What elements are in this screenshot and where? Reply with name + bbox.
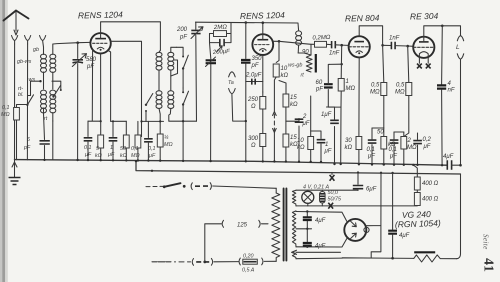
- tube V2 RENS 1204: [252, 34, 273, 55]
- wire: HT centre tap rail: [296, 228, 312, 230]
- capacitor 6pF: [40, 114, 50, 160]
- svg-text:0,1: 0,1: [148, 146, 156, 152]
- capacitor 0,1uF (2): [390, 132, 404, 165]
- capacitor 4uF (HT lower): [303, 229, 312, 247]
- junction: [341, 63, 343, 65]
- svg-text:6: 6: [27, 137, 30, 143]
- resistor 0,1 MOhm (decoupling): [135, 121, 141, 160]
- mains lead lower (dash-dot): [152, 261, 191, 263]
- junction dots on ground bus: [43, 159, 443, 167]
- resistor 300 Ohm: [260, 134, 266, 162]
- svg-text:pF: pF: [315, 87, 323, 93]
- svg-text:MΩ: MΩ: [395, 90, 405, 96]
- svg-text:10: 10: [297, 138, 304, 144]
- wire: primary top: [275, 188, 277, 193]
- svg-text:2MΩ: 2MΩ: [213, 25, 228, 31]
- label 2 MOhm (divider): [407, 138, 417, 151]
- label 6 pF: [23, 137, 31, 151]
- wire: screen lead down: [108, 50, 111, 121]
- svg-text:0,1: 0,1: [131, 146, 139, 152]
- wire: V1 top lead to first IF coil: [101, 22, 161, 50]
- capacitor 350pF: [241, 23, 251, 161]
- label 0,1 MOhm (d): [131, 146, 140, 159]
- svg-text:rt: rt: [44, 116, 48, 122]
- svg-text:μF: μF: [84, 152, 92, 158]
- label 1 uF (AF): [324, 142, 332, 155]
- label 0,1 uF (b): [148, 146, 156, 159]
- svg-text:0,1: 0,1: [2, 105, 10, 111]
- svg-text:0,5 A: 0,5 A: [242, 268, 255, 274]
- wire: V2 cathode column: [262, 55, 264, 92]
- svg-text:0,2MΩ: 0,2MΩ: [312, 35, 331, 42]
- svg-text:50: 50: [377, 130, 384, 136]
- mains switch S5: [146, 183, 186, 188]
- IF transformer coil L3a: [156, 50, 162, 90]
- antenna: [4, 11, 29, 36]
- junction: [406, 45, 409, 48]
- wire: V2 grid to top bus: [262, 23, 264, 35]
- wire: jack2 down to ground bus: [26, 44, 28, 160]
- IF transformer coil L3b: [156, 91, 162, 134]
- wire: 1M bottom to bus: [340, 107, 342, 164]
- label 580 pF: [86, 57, 97, 70]
- oscillator coil L5: [296, 31, 302, 53]
- junction dots on heater bus: [151, 170, 394, 174]
- svg-text:kΩ: kΩ: [345, 145, 353, 151]
- heater bus (lower): [136, 161, 461, 174]
- svg-text:2: 2: [407, 138, 412, 144]
- label 0,2 uF: [423, 137, 432, 150]
- junction: [340, 44, 343, 47]
- svg-text:pF: pF: [86, 64, 94, 70]
- capacitor 1uF (V3 cathode): [327, 107, 339, 164]
- capacitor 1uF (AF): [311, 131, 326, 162]
- capacitor 1uF: [109, 121, 118, 160]
- svg-text:350: 350: [252, 56, 263, 62]
- svg-text:kΩ: kΩ: [290, 102, 298, 108]
- label 0,5 MOhm (2): [395, 83, 405, 96]
- label 0,1 uF (a): [84, 145, 92, 158]
- antenna coil L2 secondary (lower): [50, 90, 56, 121]
- resistor 0,2 MOhm: [315, 41, 331, 47]
- svg-text:15: 15: [290, 95, 297, 101]
- wire: HT+ filter line: [392, 173, 394, 258]
- transformer HT secondary (middle): [292, 211, 296, 247]
- wire: 1M line: [340, 45, 343, 78]
- svg-text:1: 1: [346, 79, 349, 85]
- mains plug connector (lower): [192, 258, 239, 265]
- dropper resistor (barretter): [414, 252, 457, 262]
- wire: ws tap: [31, 80, 41, 82]
- label 2 uF: [302, 114, 310, 127]
- svg-text:4 V, 0,21 A: 4 V, 0,21 A: [303, 185, 329, 191]
- svg-text:μF: μF: [423, 144, 431, 150]
- svg-text:bl.: bl.: [18, 92, 24, 98]
- svg-text:REN 804: REN 804: [345, 13, 380, 24]
- antenna terminal jack 3: [40, 36, 46, 48]
- capacitor 2uF: [286, 119, 303, 162]
- capacitor 4uF (HT upper): [303, 212, 312, 229]
- svg-text:400 Ω: 400 Ω: [422, 181, 439, 187]
- label 4 nF: [448, 81, 455, 94]
- wire: grid return lower: [330, 63, 342, 65]
- svg-text:μF: μF: [302, 121, 310, 127]
- svg-text:RE 304: RE 304: [410, 11, 439, 22]
- antenna coil L1 primary (upper): [41, 47, 47, 89]
- band switch S2: [145, 94, 153, 122]
- junction dots HT rails: [306, 210, 308, 248]
- svg-text:gb: gb: [33, 47, 39, 53]
- tube V4 RE 304: [413, 37, 434, 58]
- svg-text:pF: pF: [23, 145, 31, 151]
- capacitor 0,1uF (1): [368, 128, 384, 164]
- svg-text:200: 200: [176, 27, 188, 33]
- svg-text:0,5: 0,5: [396, 83, 405, 89]
- transformer heater secondary (top): [292, 190, 296, 206]
- svg-text:0,1: 0,1: [367, 147, 375, 153]
- svg-text:4μF: 4μF: [315, 244, 326, 250]
- potentiometer 90 (feedback): [298, 44, 316, 72]
- transformer core: [284, 189, 287, 261]
- svg-text:RENS 1204: RENS 1204: [240, 10, 285, 21]
- svg-text:L: L: [456, 44, 460, 51]
- transformer rectifier filament secondary (bottom): [292, 251, 296, 259]
- rheostat 50 Ohm: [320, 190, 326, 206]
- wire: V1 cathode down: [100, 54, 102, 122]
- svg-text:nF: nF: [448, 88, 455, 94]
- svg-text:41: 41: [481, 258, 496, 272]
- resistor 1 MOhm: [328, 79, 344, 108]
- svg-text:300: 300: [248, 136, 259, 142]
- junction: [459, 164, 462, 167]
- label 50 Ohm: [328, 190, 342, 203]
- svg-text:6μF: 6μF: [366, 187, 377, 193]
- svg-text:580: 580: [86, 57, 97, 63]
- svg-text:MΩ: MΩ: [164, 142, 173, 148]
- svg-text:60: 60: [316, 80, 323, 86]
- wire: TA to cathode node: [232, 94, 246, 121]
- wire: grid lead coil to tube V1: [53, 42, 90, 44]
- wire: V2 anode line to 0,2M: [279, 41, 315, 44]
- svg-text:4μF: 4μF: [315, 218, 326, 224]
- heater X mark (upper, from heater bus): [330, 172, 335, 180]
- svg-text:MΩ: MΩ: [131, 153, 140, 159]
- wire: link pair 3: [142, 120, 164, 122]
- svg-text:50: 50: [120, 146, 126, 152]
- capacitor 4uF (bus series): [447, 160, 460, 170]
- svg-text:0,5: 0,5: [371, 83, 380, 89]
- wire: jack1 down to ground bus: [14, 44, 16, 160]
- label 350 pF: [251, 56, 263, 69]
- resistor 10 kOhm (AF): [308, 96, 314, 162]
- label 15 kOhm (l): [290, 135, 298, 148]
- label 15 kOhm (u): [290, 95, 298, 108]
- variable capacitor 580pF tuning: [72, 43, 86, 160]
- svg-text:2,0μF: 2,0μF: [245, 73, 262, 79]
- label 200 pF: [176, 27, 188, 41]
- svg-text:Ta: Ta: [228, 80, 234, 86]
- mains plug connector (upper): [191, 183, 276, 190]
- capacitor 2,0uF cathode: [246, 79, 263, 85]
- resistor 1 MOhm (IF): [157, 134, 163, 161]
- svg-text:0,20: 0,20: [243, 254, 254, 260]
- label 10 kOhm: [281, 66, 289, 79]
- svg-text:RENS 1204: RENS 1204: [78, 9, 123, 20]
- tube V3 REN 804: [349, 36, 370, 57]
- svg-text:Ω: Ω: [251, 143, 256, 149]
- svg-text:1: 1: [110, 145, 113, 151]
- junction: [381, 44, 384, 47]
- svg-text:μF: μF: [324, 149, 332, 155]
- svg-text:0,1: 0,1: [84, 145, 92, 151]
- svg-text:400 Ω: 400 Ω: [422, 197, 439, 203]
- label M kOhm: [164, 135, 173, 148]
- svg-text:1: 1: [325, 142, 328, 148]
- wire: L2 lower bottom to bus: [52, 121, 54, 160]
- arrow on filament lead: [292, 250, 297, 254]
- svg-text:30: 30: [345, 138, 352, 144]
- capacitor 0,1uF (b): [144, 121, 153, 160]
- capacitor 4nF: [437, 85, 446, 88]
- IF transformer coil L4b: [168, 91, 197, 122]
- ground: [9, 160, 21, 185]
- junction: [391, 257, 394, 260]
- resistor 250 Ohm: [260, 92, 266, 134]
- dial lamp: [302, 190, 314, 206]
- resistor 15 kOhm (lower): [283, 134, 289, 162]
- grid bus wire (top): [196, 22, 299, 30]
- resistor 2 MOhm grid leak: [210, 31, 232, 37]
- svg-text:MΩ: MΩ: [407, 145, 417, 151]
- svg-text:kΩ: kΩ: [281, 73, 289, 79]
- svg-text:4μF: 4μF: [443, 154, 454, 160]
- wire: heater circuit rails: [296, 190, 417, 206]
- resistor 400 Ohm (upper): [413, 165, 420, 190]
- svg-text:0,1: 0,1: [389, 147, 397, 153]
- loudspeaker terminal upper: [457, 36, 463, 41]
- resistor 0,1 MOhm (antenna): [14, 105, 28, 160]
- resistor 30 kOhm: [356, 57, 362, 164]
- label 50 kOhm (divider): [377, 130, 396, 149]
- capacitor 1nF coupling: [332, 41, 349, 48]
- svg-text:MΩ: MΩ: [370, 90, 380, 96]
- svg-text:MΩ: MΩ: [1, 112, 10, 118]
- resistor 0,5 MOhm (V3 plate): [381, 45, 387, 136]
- rectifier tube VG240: [344, 219, 369, 241]
- svg-text:rt: rt: [301, 73, 305, 79]
- svg-text:200μF: 200μF: [212, 49, 231, 56]
- trimmer capacitor (wave trap): [206, 43, 217, 161]
- svg-text:Ω: Ω: [251, 104, 256, 110]
- svg-text:1nF: 1nF: [329, 51, 340, 57]
- svg-text:50/75: 50/75: [328, 197, 342, 203]
- resistor 0,5 MOhm (V4 grid): [404, 46, 412, 136]
- capacitor 60pF: [324, 64, 333, 87]
- junction: [245, 21, 248, 24]
- resistor 5 kOhm: [98, 121, 104, 161]
- label 5 kOhm: [95, 146, 102, 159]
- wire: V4 anode feed down: [441, 26, 444, 166]
- variable capacitor 200pF padder: [191, 22, 203, 121]
- svg-text:250: 250: [247, 97, 259, 103]
- antenna terminal jack 1: [12, 36, 18, 45]
- wire: osc coil tap link: [171, 60, 178, 76]
- svg-text:1nF: 1nF: [389, 36, 400, 42]
- label 60 pF: [315, 80, 323, 93]
- resistor 50 kOhm: [123, 121, 129, 160]
- tube V1 RENS 1204: [90, 33, 110, 53]
- label 300 Ohm: [248, 136, 259, 149]
- junction: [441, 25, 444, 28]
- svg-text:kΩ: kΩ: [120, 153, 127, 159]
- transformer primary winding: [272, 193, 280, 261]
- wire: V1 anode right then down: [111, 41, 142, 136]
- svg-text:2: 2: [302, 114, 307, 120]
- wire: V3 anode top loop: [359, 26, 382, 46]
- capacitor 6uF: [353, 173, 363, 191]
- junction: [245, 120, 247, 122]
- heater X marks V4: [417, 58, 431, 69]
- capacitor 200uF grid: [210, 23, 232, 47]
- voltage tap 125: [205, 220, 268, 262]
- svg-text:μF: μF: [389, 154, 397, 160]
- svg-text:pF: pF: [251, 63, 259, 69]
- wire: HT feed from bus to rectifier: [367, 173, 382, 258]
- label 0,1 uF (1): [367, 147, 376, 160]
- label 10 kOhm (AF): [297, 138, 305, 151]
- label 1 MOhm: [346, 79, 356, 92]
- wire: rectifier filament bottom leads: [296, 252, 342, 258]
- pickup terminal TA upper: [229, 72, 236, 77]
- svg-text:μF: μF: [367, 154, 375, 160]
- capacitor 4uF (filter): [388, 231, 397, 234]
- capacitor 0,2uF: [413, 133, 422, 165]
- svg-text:MΩ: MΩ: [346, 86, 356, 92]
- label rt-bl: [18, 86, 24, 98]
- capacitor 1nF to V4: [383, 42, 414, 49]
- svg-text:1μF: 1μF: [321, 112, 332, 118]
- svg-text:125: 125: [237, 223, 248, 229]
- resistor 10 kOhm: [273, 64, 279, 111]
- band switch S1 (antenna): [52, 81, 62, 98]
- wire: top to speaker terminal: [442, 26, 460, 36]
- svg-text:ws-gb: ws-gb: [288, 63, 302, 69]
- svg-text:¼: ¼: [164, 135, 169, 141]
- resistor 2 MOhm (divider): [401, 132, 407, 165]
- resistor 400 Ohm (lower): [414, 190, 420, 206]
- wire: rectifier filament upper lead: [296, 212, 347, 223]
- wire: link pair 2: [111, 120, 127, 122]
- decoupling cluster: capacitor 0,1uF: [84, 121, 93, 160]
- svg-text:ws: ws: [29, 77, 36, 83]
- label 250 Ohm: [247, 97, 259, 110]
- band switch S4: [182, 88, 189, 161]
- label 0,5 MOhm (1): [370, 83, 380, 96]
- resistor 15 kOhm (upper): [279, 81, 289, 135]
- svg-text:kΩ: kΩ: [297, 145, 305, 151]
- band switch S0 (antenna earth): [26, 95, 33, 106]
- label 0,1 uF (2): [389, 147, 398, 160]
- bottom HT rail: [342, 257, 414, 260]
- wire: right return vertical: [457, 174, 461, 259]
- junction: [278, 40, 281, 43]
- junction: [76, 41, 79, 44]
- wire: rectifier filament lower lead: [296, 238, 347, 247]
- label 30 kOhm: [345, 138, 353, 151]
- svg-text:50,0: 50,0: [328, 190, 339, 196]
- pickup terminal TA lower: [229, 89, 236, 94]
- svg-text:4μF: 4μF: [399, 233, 410, 239]
- wire: V4 anode top loop: [424, 26, 443, 37]
- wire: rt-bl tap: [28, 81, 31, 95]
- wire: link pair 1: [88, 120, 101, 122]
- resistor 50 kOhm (divider): [381, 137, 387, 165]
- svg-text:kΩ: kΩ: [95, 153, 102, 159]
- ground bus (upper): [15, 160, 447, 166]
- wire: V1 left electrode down: [91, 50, 93, 122]
- svg-text:pF: pF: [179, 35, 187, 41]
- svg-text:10: 10: [281, 66, 288, 72]
- loudspeaker terminal lower: [457, 54, 463, 165]
- svg-text:90: 90: [302, 50, 309, 56]
- svg-text:μF: μF: [148, 153, 156, 159]
- svg-text:0,2: 0,2: [423, 137, 432, 143]
- fuse 0,2A: [239, 258, 276, 265]
- label 1 uF (a): [107, 145, 115, 158]
- label 50 kOhm: [120, 146, 127, 159]
- svg-text:gb-ws: gb-ws: [17, 59, 32, 65]
- antenna coil L1 primary (lower): [41, 90, 47, 113]
- label 0,1 MOhm (antenna): [1, 105, 10, 118]
- svg-text:(RGN 1054): (RGN 1054): [395, 218, 441, 230]
- svg-text:μF: μF: [107, 152, 115, 158]
- junction: [262, 21, 265, 24]
- IF transformer coil L4a: [168, 47, 177, 90]
- heater X mark (left): [328, 203, 333, 209]
- antenna terminal jack 2: [25, 36, 31, 45]
- wire: V2 anode to right: [273, 41, 279, 62]
- band switch S3: [177, 47, 189, 88]
- junction: [203, 261, 206, 264]
- adjustment arrow (volume control): [273, 112, 277, 162]
- scanned page left edge shadow strip: [0, 0, 2, 282]
- antenna coil L2 secondary (upper): [50, 44, 56, 89]
- svg-text:Seite: Seite: [482, 234, 490, 250]
